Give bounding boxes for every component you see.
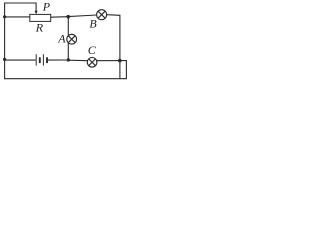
wire: node down to lamp A <box>67 17 69 36</box>
wire: right edge stub down to bottom <box>120 61 127 79</box>
rheostat R body <box>30 14 51 21</box>
wire: top wiper feed <box>5 3 36 11</box>
junction dot: left edge / battery row <box>3 58 6 61</box>
battery cell 1 positive plate <box>35 54 37 65</box>
lamp B <box>97 10 107 20</box>
wire: lamp B to right corner and down <box>107 15 120 79</box>
wire: left edge to rheostat <box>5 16 30 18</box>
wire: node to lamp B <box>68 15 97 17</box>
wire: battery to mid node <box>48 59 68 61</box>
wire: mid node to lamp C <box>68 59 87 62</box>
wire: lamp A down to mid node <box>67 43 69 60</box>
battery cell 1 negative plate <box>39 57 41 63</box>
wire: R to node <box>51 16 68 19</box>
battery cell 2 positive plate <box>42 54 44 65</box>
battery cell 2 negative plate <box>46 57 48 63</box>
wire: left edge to battery <box>5 59 36 61</box>
wire: lamp C to right node <box>97 60 120 62</box>
wire: bottom edge <box>4 78 127 80</box>
wiper arrow of rheostat <box>35 11 38 15</box>
wire: left edge <box>4 3 6 80</box>
svg-text:A: A <box>57 31 66 45</box>
lamp A <box>67 34 77 44</box>
junction node: top tee <box>66 15 70 19</box>
svg-text:R: R <box>35 20 44 34</box>
svg-text:P: P <box>42 0 51 14</box>
junction dot: right tee <box>118 59 122 63</box>
lamp C <box>87 58 97 68</box>
junction dot: A branch / battery row <box>67 58 70 61</box>
svg-text:C: C <box>88 43 97 57</box>
svg-text:B: B <box>89 17 97 31</box>
junction dot: left edge / R row <box>3 15 6 18</box>
